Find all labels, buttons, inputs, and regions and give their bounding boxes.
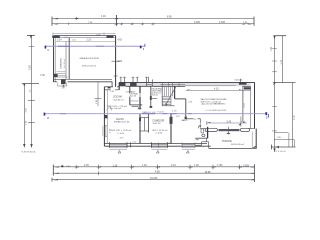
svg-text:1.00: 1.00	[194, 164, 199, 167]
svg-text:S=9.80 m2: S=9.80 m2	[113, 100, 124, 102]
svg-text:1.46: 1.46	[101, 15, 106, 18]
svg-text:8.95: 8.95	[167, 15, 172, 18]
windows on top wall	[120, 77, 243, 87]
svg-text:4.10: 4.10	[214, 88, 219, 90]
bath fixtures	[196, 126, 205, 140]
svg-text:0.925: 0.925	[243, 164, 250, 167]
wall piers (dark) on top wall	[108, 87, 111, 89]
svg-text:3.04: 3.04	[57, 39, 62, 41]
svg-text:+/- 0.00: +/- 0.00	[155, 133, 163, 135]
svg-text:S=3.10 m2: S=3.10 m2	[64, 59, 66, 68]
porch dim line	[207, 122, 247, 124]
svg-text:10.45: 10.45	[205, 171, 212, 174]
svg-text:1.10: 1.10	[281, 59, 283, 64]
svg-text:PLANTA BAJA: PLANTA BAJA	[21, 151, 36, 154]
svg-text:SUP=9.30 m2: SUP=9.30 m2	[231, 144, 245, 146]
svg-text:4.65: 4.65	[155, 171, 160, 174]
svg-text:COCINA: COCINA	[113, 96, 122, 99]
svg-text:2.325: 2.325	[219, 21, 226, 24]
svg-text:A = 1.60 m2: A = 1.60 m2	[110, 107, 122, 110]
svg-text:5.45: 5.45	[227, 121, 232, 123]
svg-text:1.46: 1.46	[142, 164, 147, 167]
svg-text:BANO: BANO	[182, 119, 188, 122]
svg-text:1.725: 1.725	[217, 164, 224, 167]
svg-text:P=4.90: P=4.90	[158, 111, 165, 113]
svg-text:SUP UTIL = 17.45 m2: SUP UTIL = 17.45 m2	[111, 130, 132, 132]
svg-text:+/- 0.00 NIVEL ACCESO: +/- 0.00 NIVEL ACCESO	[205, 109, 227, 112]
svg-text:SUP=21.30 m2: SUP=21.30 m2	[82, 66, 97, 68]
svg-text:2.20: 2.20	[87, 39, 92, 41]
svg-text:+/- 0.00: +/- 0.00	[117, 133, 125, 135]
kitchen door swing	[106, 106, 112, 110]
svg-text:4.65: 4.65	[117, 39, 122, 41]
svg-text:PORCHE: PORCHE	[222, 141, 232, 143]
svg-text:2.80: 2.80	[118, 61, 123, 63]
svg-text:S=11.50: S=11.50	[153, 123, 161, 125]
svg-text:7.10: 7.10	[294, 115, 296, 120]
svg-text:3.50: 3.50	[29, 65, 32, 70]
svg-text:S=2.20: S=2.20	[130, 96, 137, 98]
svg-text:Tc 9.15 m2: Tc 9.15 m2	[275, 151, 286, 153]
svg-text:H=2.50: H=2.50	[152, 94, 158, 96]
svg-text:15.035: 15.035	[150, 177, 158, 180]
svg-text:1.90x1.20: 1.90x1.20	[130, 100, 140, 102]
svg-text:2.35: 2.35	[84, 164, 89, 167]
svg-text:4.925: 4.925	[194, 21, 201, 24]
left wall window	[103, 126, 107, 136]
svg-text:ESTAR S=17.60: ESTAR S=17.60	[114, 120, 130, 123]
svg-text:A=12.30 m2 PAVIMENTO: A=12.30 m2 PAVIMENTO	[202, 102, 226, 105]
svg-text:2.10: 2.10	[171, 164, 176, 167]
svg-text:GARAJE EXTERIOR: GARAJE EXTERIOR	[80, 57, 100, 60]
svg-text:1.40: 1.40	[271, 46, 273, 51]
svg-text:LAVADERO: LAVADERO	[60, 57, 63, 68]
svg-text:1.10: 1.10	[113, 165, 118, 168]
svg-text:1.50: 1.50	[40, 75, 45, 77]
